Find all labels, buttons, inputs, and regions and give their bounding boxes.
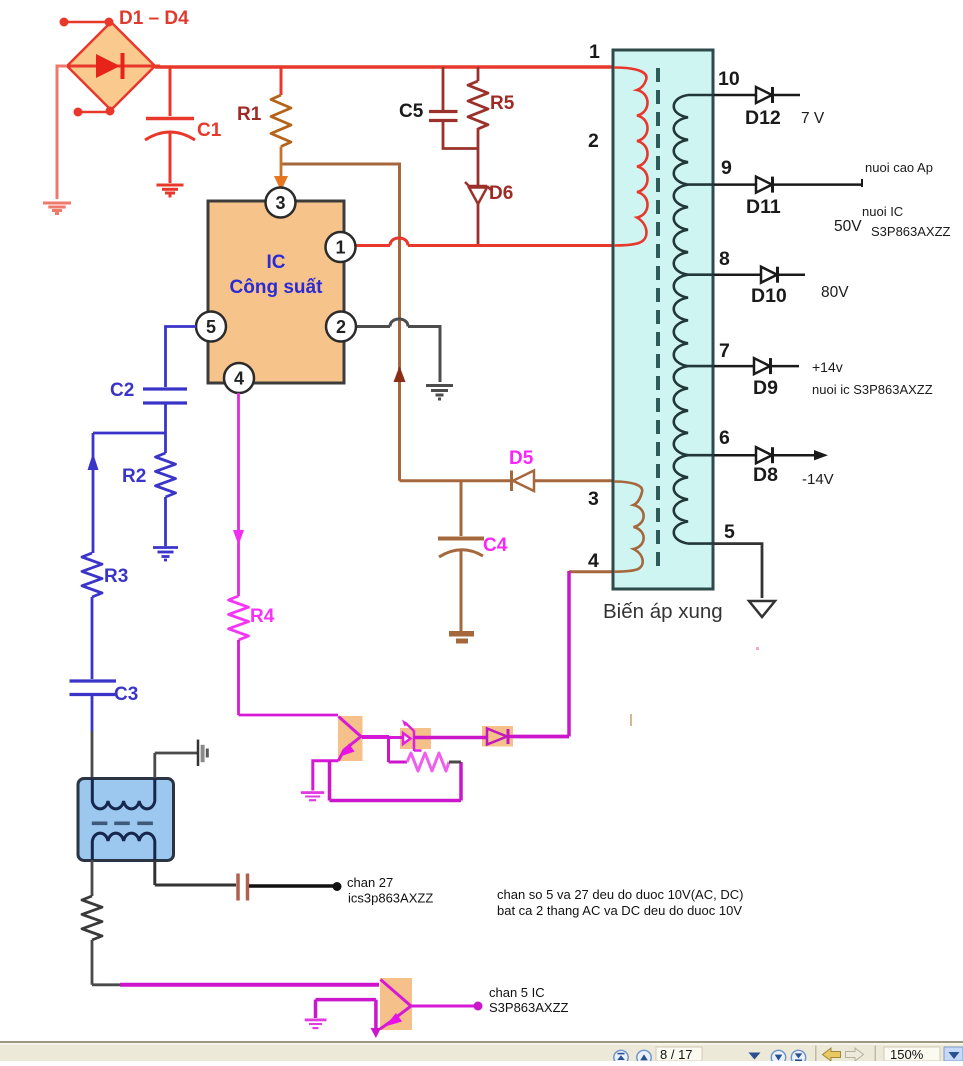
toolbar separator — [815, 1046, 817, 1062]
svg-text:chan 5 IC: chan 5 IC — [489, 985, 545, 1000]
svg-text:D8: D8 — [753, 464, 778, 486]
secondary tap wires inside box — [688, 95, 714, 544]
primary winding 1-2 (red) — [614, 68, 648, 246]
svg-text:D11: D11 — [746, 196, 781, 218]
ground (under C1) — [157, 185, 184, 196]
orange pad diode — [482, 726, 513, 747]
wire T2 top-right to rotated ground — [155, 753, 197, 778]
adjustable zener (TL431) — [403, 723, 422, 752]
wire T2 bottom-left to resistor — [91, 860, 94, 896]
pin 1 — [326, 232, 356, 262]
diode D10 row — [714, 267, 805, 307]
ground (feedback, magenta) — [301, 791, 324, 801]
wire transformer pin4 down to feedback chain — [513, 571, 569, 737]
toolbar prev-page button — [637, 1050, 651, 1064]
svg-text:C1: C1 — [197, 120, 222, 141]
svg-text:C4: C4 — [483, 535, 508, 556]
wire bottom magenta rail — [120, 983, 379, 987]
capacitor C5 — [442, 67, 445, 110]
T2 core dashes — [92, 822, 153, 826]
capacitor C3 — [70, 681, 117, 695]
phototransistor Q2 — [380, 980, 474, 1030]
diode D5 — [512, 471, 535, 492]
pin 3 — [266, 188, 296, 218]
svg-text:chan so 5 va 27 deu do duoc 10: chan so 5 va 27 deu do duoc 10V(AC, DC) — [497, 887, 743, 902]
svg-text:8: 8 — [719, 248, 730, 270]
resistor (bottom left, gray) — [82, 896, 102, 940]
svg-text:R3: R3 — [104, 566, 128, 587]
resistor R1 — [280, 67, 283, 95]
capacitor C1 — [145, 119, 195, 141]
dark lead of feedback resistor — [449, 761, 461, 764]
svg-text:4: 4 — [234, 369, 244, 389]
ground (chassis, open triangle) — [749, 601, 775, 617]
wire R4 to optocoupler — [239, 640, 339, 715]
wire resistor down and right — [92, 940, 121, 985]
wire left branch down with arrow — [92, 433, 95, 553]
bridge rectifier D1-D4 — [67, 22, 160, 110]
diode D9 row — [714, 358, 799, 399]
AC input terminal top — [60, 18, 114, 27]
wire R2 to ground — [164, 497, 167, 546]
svg-text:D1 – D4: D1 – D4 — [119, 8, 189, 29]
wire pin4 IC down with arrow — [237, 393, 240, 596]
svg-text:3: 3 — [588, 488, 599, 510]
pin 4 — [224, 363, 254, 393]
diode D11 row — [714, 177, 862, 218]
svg-text:10: 10 — [718, 68, 740, 90]
resistor R3 — [82, 553, 102, 597]
svg-text:4: 4 — [588, 550, 599, 572]
transformer Bien ap xung box — [613, 50, 713, 589]
IC U1 Cong suat — [208, 201, 344, 383]
T2 secondary coil — [92, 833, 155, 860]
wire zener to Q1 — [362, 736, 403, 739]
svg-text:D12: D12 — [745, 107, 781, 129]
svg-text:D6: D6 — [489, 183, 513, 204]
diode D8 row — [714, 447, 828, 486]
svg-text:1: 1 — [589, 41, 600, 63]
toolbar right dropdown — [944, 1047, 963, 1061]
svg-text:S3P863AXZZ: S3P863AXZZ — [871, 224, 951, 239]
transformer pin labels — [588, 41, 740, 572]
svg-text:C5: C5 — [399, 101, 424, 122]
svg-text:S3P863AXZZ: S3P863AXZZ — [489, 1000, 569, 1015]
svg-text:nuoi ic S3P863AXZZ: nuoi ic S3P863AXZZ — [812, 382, 933, 397]
small feedback transformer T2 — [78, 779, 174, 861]
wire T2 bottom-right to coupling cap — [155, 860, 236, 885]
wire pin5 to chassis ground — [713, 544, 762, 598]
svg-text:7 V: 7 V — [801, 110, 825, 127]
ground (R2, blue) — [153, 548, 178, 561]
arrow down at Q2 base — [371, 1028, 382, 1038]
node chan 27 — [333, 882, 342, 891]
svg-text:R4: R4 — [250, 606, 275, 627]
wire cap to node chan27 — [249, 884, 337, 888]
toolbar previous-view arrow (gold) — [823, 1048, 841, 1061]
wire loop below Q1 — [330, 761, 462, 801]
svg-text:D9: D9 — [753, 377, 778, 399]
wire zener to diode — [414, 736, 487, 740]
toolbar page field — [656, 1047, 702, 1062]
svg-text:Biến áp xung: Biến áp xung — [603, 600, 723, 623]
node chan 5 — [474, 1002, 483, 1011]
ground loop Q2 — [316, 1000, 376, 1030]
toolbar next-page button — [771, 1050, 785, 1064]
wire junction down to feedback resistor — [389, 738, 408, 763]
resistor (feedback, light magenta) — [407, 753, 449, 771]
svg-text:8 / 17: 8 / 17 — [660, 1047, 693, 1061]
secondary winding (dark) — [674, 95, 688, 544]
svg-text:R1: R1 — [237, 104, 262, 125]
toolbar last-page button — [791, 1050, 805, 1064]
primary winding 3-4 (brown) — [614, 482, 644, 572]
orange pad optocoupler Q2 — [380, 978, 412, 1030]
brown net: R1 out to pin3, vertical crossing, to D5/C4 row — [281, 164, 614, 481]
toolbar — [0, 1041, 963, 1061]
capacitor C2 — [143, 389, 187, 403]
svg-text:R2: R2 — [122, 466, 146, 487]
resistor R4 — [229, 596, 249, 640]
svg-text:C3: C3 — [114, 684, 138, 705]
toolbar first-page button — [614, 1050, 628, 1064]
arrow up on brown wire — [394, 366, 406, 382]
wire C2 to junction — [93, 404, 166, 453]
wire bridge left to ground — [57, 66, 67, 199]
svg-text:ics3p863AXZZ: ics3p863AXZZ — [348, 891, 433, 906]
wire Q1 emitter to ground — [313, 761, 339, 791]
svg-text:+14v: +14v — [812, 359, 843, 375]
svg-text:7: 7 — [719, 340, 730, 362]
orange pad optocoupler Q1 — [338, 716, 363, 761]
diode D12 row — [714, 87, 800, 129]
stray dot — [756, 647, 759, 650]
ground (bridge left) — [43, 203, 71, 214]
svg-text:3: 3 — [275, 193, 285, 213]
AC input terminal bottom — [74, 107, 115, 117]
svg-text:bat ca 2 thang AC va DC deu do: bat ca 2 thang AC va DC deu do duoc 10V — [497, 903, 742, 918]
diode (feedback, on pad) — [487, 729, 508, 745]
wire pin1 to transformer pin2 (with hop) — [356, 238, 614, 246]
phototransistor Q1 — [339, 717, 390, 761]
svg-text:chan 27: chan 27 — [347, 875, 393, 890]
wire pin4 brown — [569, 570, 614, 573]
svg-text:-14V: -14V — [802, 471, 834, 488]
pin 5 — [196, 312, 226, 342]
arrow down on magenta wire — [233, 530, 244, 545]
capacitor (coupling, brown plates) — [238, 874, 248, 901]
svg-text:2: 2 — [588, 130, 599, 152]
wire diode to vertical — [508, 735, 569, 739]
svg-text:nuoi IC: nuoi IC — [862, 204, 903, 219]
svg-text:D5: D5 — [509, 448, 534, 469]
svg-text:6: 6 — [719, 427, 730, 449]
svg-text:50V: 50V — [834, 218, 862, 235]
ground (Q2, magenta) — [305, 1019, 327, 1030]
zener diode D6 — [477, 128, 480, 186]
toolbar zoom field — [884, 1047, 940, 1062]
svg-text:C2: C2 — [110, 380, 134, 401]
svg-text:9: 9 — [721, 157, 732, 179]
pin 2 — [326, 312, 356, 342]
svg-text:nuoi cao Ap: nuoi cao Ap — [865, 160, 933, 175]
arrow up on blue wire — [88, 453, 99, 470]
stray mark near transformer — [630, 714, 632, 726]
svg-text:Công suất: Công suất — [230, 277, 324, 298]
toolbar separator 2 — [875, 1046, 877, 1062]
wire C3 down (blue then gray) — [91, 696, 94, 731]
svg-text:IC: IC — [267, 252, 286, 273]
wire R3 to C3 — [91, 597, 94, 679]
ground (C4, brown filled) — [449, 631, 474, 637]
svg-text:80V: 80V — [821, 284, 849, 301]
orange pad zener — [400, 728, 431, 749]
toolbar next-view arrow (gray) — [846, 1048, 864, 1061]
svg-text:D10: D10 — [751, 285, 787, 307]
ground (rotated, right-facing) — [198, 740, 209, 766]
wire pin2 to ground (with hop) — [357, 319, 440, 382]
svg-text:150%: 150% — [890, 1047, 924, 1061]
T2 primary coil — [92, 779, 155, 809]
ground (pin2, gray) — [426, 386, 453, 400]
svg-text:R5: R5 — [490, 93, 515, 114]
wire pin5 IC to C2 — [166, 327, 197, 388]
resistor R2 — [156, 453, 176, 497]
toolbar dropdown v — [749, 1053, 761, 1060]
transformer core dashed line — [656, 68, 660, 572]
svg-text:5: 5 — [724, 521, 735, 543]
svg-text:1: 1 — [335, 238, 345, 258]
capacitor C4 — [460, 481, 463, 536]
svg-text:5: 5 — [206, 317, 216, 337]
wire C1 branch — [169, 67, 172, 183]
svg-text:2: 2 — [336, 317, 346, 337]
resistor R5 — [477, 67, 480, 81]
wire top rail — [155, 65, 614, 69]
